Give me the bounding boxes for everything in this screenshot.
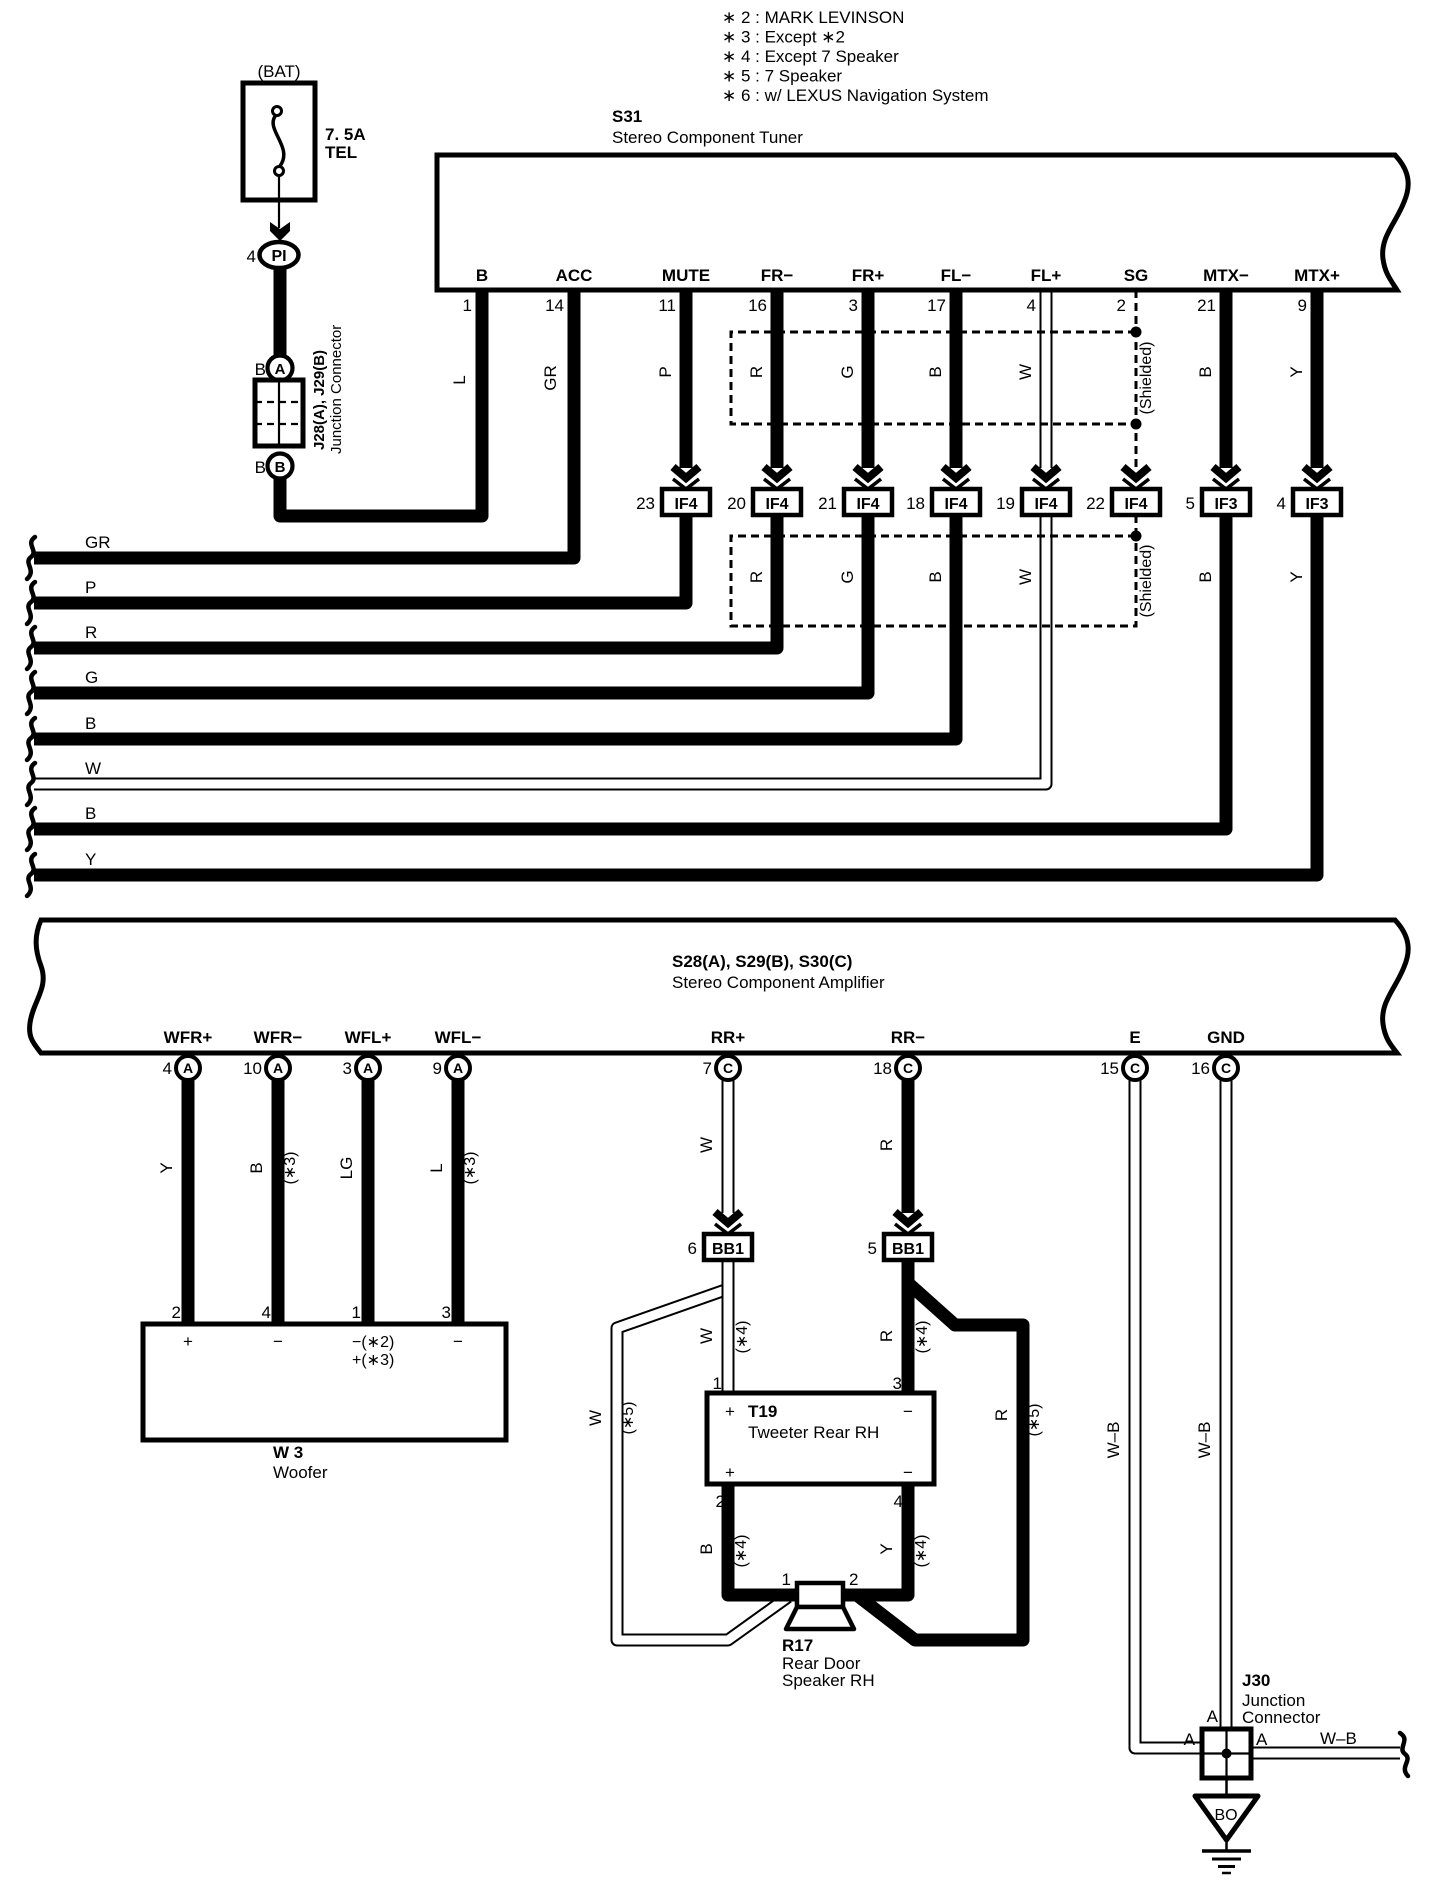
wire GR from S31 pin14 ACC to left edge: [34, 290, 574, 558]
connector 19 IF4: [996, 489, 1070, 515]
svg-text:(∗4): (∗4): [734, 1321, 751, 1354]
node A left of J30: [1184, 1730, 1196, 1749]
svg-text:FL−: FL−: [941, 266, 972, 285]
label Y on wire x=1317 upper run: [1287, 366, 1306, 377]
svg-text:W–B: W–B: [1320, 1729, 1357, 1748]
junction connector J28(A), J29(B) pin A: [255, 356, 293, 381]
label G on horizontal wire y=693: [85, 668, 98, 687]
svg-text:IF4: IF4: [674, 496, 697, 513]
svg-text:C: C: [723, 1060, 733, 1076]
svg-text:Tweeter Rear RH: Tweeter Rear RH: [748, 1423, 879, 1442]
label R on wire RR-: [877, 1139, 896, 1151]
svg-text:(∗4): (∗4): [914, 1321, 931, 1354]
S31 pin 3 FR+: [849, 266, 885, 315]
svg-text:+: +: [725, 1402, 735, 1421]
svg-text:Y: Y: [85, 850, 96, 869]
svg-text:S31: S31: [612, 107, 642, 126]
wire R from IF4-20 to left edge: [34, 515, 777, 648]
svg-text:RR+: RR+: [711, 1028, 746, 1047]
svg-text:23: 23: [636, 494, 655, 513]
svg-text:B: B: [247, 1162, 266, 1173]
svg-text:IF4: IF4: [765, 496, 788, 513]
label W (*5) on branch wire: [586, 1402, 637, 1435]
svg-text:4: 4: [1027, 296, 1036, 315]
svg-text:A: A: [453, 1060, 463, 1076]
woofer pin 1: [352, 1303, 361, 1322]
svg-text:5: 5: [868, 1239, 877, 1258]
svg-text:A: A: [275, 361, 286, 378]
legend notes: [722, 8, 989, 105]
label B on horizontal wire y=739: [85, 714, 96, 733]
label P on horizontal wire y=603: [85, 578, 96, 597]
label Y on wire x=1317 lower run: [1287, 571, 1306, 582]
svg-text:(∗4): (∗4): [913, 1535, 930, 1568]
svg-text:(Shielded): (Shielded): [1138, 545, 1155, 618]
svg-text:W: W: [697, 1137, 716, 1153]
label GR on horizontal wire y=558: [85, 533, 111, 552]
woofer pin 4: [262, 1303, 271, 1322]
arrow into connector IF4-18: [943, 467, 969, 489]
label P on wire x=686 upper run: [656, 366, 675, 377]
wire W-B (white) amp E pin15C to J30: [1135, 1080, 1204, 1748]
label Y on horizontal wire y=875: [85, 850, 96, 869]
wire SG shield (dashed) from IF4-22 to lower shield box: [1135, 515, 1138, 536]
svg-text:Speaker RH: Speaker RH: [782, 1671, 875, 1690]
svg-text:IF3: IF3: [1214, 496, 1237, 513]
svg-text:Y: Y: [877, 1543, 896, 1554]
arrow into connector IF4-19: [1033, 467, 1059, 489]
shield outline upper (dashed box): [731, 332, 1136, 424]
svg-text:Woofer: Woofer: [273, 1463, 328, 1482]
woofer pin 3: [442, 1303, 451, 1322]
amplifier pin 16C GND: [1191, 1028, 1245, 1080]
svg-text:7: 7: [703, 1059, 712, 1078]
svg-text:GND: GND: [1207, 1028, 1245, 1047]
wire P from S31 pin11 MUTE to IF4-23: [680, 290, 693, 468]
label W on wire x=1046 upper run: [1016, 364, 1035, 380]
label B on horizontal wire y=829: [85, 804, 96, 823]
svg-text:−: −: [273, 1332, 283, 1351]
junction connector J28(A), J29(B) pin B: [255, 454, 293, 479]
tuner S31 Stereo Component Tuner: [437, 107, 1408, 290]
amplifier pin 10A WFR−: [243, 1028, 302, 1080]
svg-text:RR−: RR−: [891, 1028, 926, 1047]
svg-text:21: 21: [1197, 296, 1216, 315]
svg-text:B: B: [85, 714, 96, 733]
svg-text:ACC: ACC: [556, 266, 593, 285]
svg-text:S28(A), S29(B), S30(C): S28(A), S29(B), S30(C): [672, 952, 852, 971]
svg-text:TEL: TEL: [325, 143, 357, 162]
label Y (*4) on wire tweeter pin4 to speaker: [877, 1535, 930, 1568]
label W-B on wire right of J30: [1320, 1729, 1357, 1748]
svg-text:Y: Y: [157, 1162, 176, 1173]
svg-text:G: G: [85, 668, 98, 687]
label G on wire x=868 upper run: [838, 365, 857, 378]
wire W (white, *5) branch from BB1-6 to speaker pin1: [617, 1289, 788, 1640]
svg-text:FR−: FR−: [761, 266, 794, 285]
label W on wire RR+: [697, 1137, 716, 1153]
connector 4 PI: [247, 242, 299, 268]
svg-text:IF4: IF4: [1034, 496, 1057, 513]
svg-text:W: W: [1016, 364, 1035, 380]
label W-B on wire GND: [1195, 1422, 1214, 1459]
svg-text:−(∗2): −(∗2): [352, 1334, 394, 1351]
svg-text:2: 2: [716, 1492, 725, 1511]
label B on wire x=956 lower run: [926, 571, 945, 582]
svg-text:+: +: [725, 1463, 735, 1482]
svg-text:4: 4: [247, 247, 256, 266]
speaker R17 Rear Door Speaker RH pins 1,2: [782, 1570, 859, 1589]
svg-text:GR: GR: [541, 365, 560, 391]
svg-text:14: 14: [545, 296, 564, 315]
label W on horizontal wire y=784: [85, 759, 101, 778]
amplifier pin 3A WFL+: [343, 1028, 392, 1080]
svg-text:4: 4: [262, 1303, 271, 1322]
label G on wire x=868 lower run: [838, 570, 857, 583]
svg-text:A: A: [363, 1060, 373, 1076]
wire Y amp WFR+ pin4A to woofer pin2: [182, 1080, 195, 1324]
svg-text:A: A: [1256, 1730, 1268, 1749]
arrow into connector IF4-22: [1123, 467, 1149, 489]
svg-text:1: 1: [463, 296, 472, 315]
amplifier pin 15C E: [1100, 1028, 1147, 1080]
svg-text:G: G: [838, 570, 857, 583]
svg-text:1: 1: [782, 1570, 791, 1589]
speaker R17 symbol: [782, 1583, 875, 1690]
svg-text:SG: SG: [1124, 266, 1149, 285]
svg-text:B: B: [1196, 366, 1215, 377]
svg-text:11: 11: [658, 296, 676, 315]
junction connector J30 body: [1202, 1729, 1251, 1778]
wire W (white, *4) from BB1-6 to tweeter pin1: [722, 1259, 735, 1393]
svg-text:16: 16: [748, 296, 767, 315]
label W-B on wire E: [1104, 1422, 1123, 1459]
label B on wire x=1226 lower run: [1196, 571, 1215, 582]
svg-text:BB1: BB1: [892, 1241, 924, 1258]
wire R (*4) from BB1-5 to tweeter pin3: [902, 1080, 915, 1393]
svg-text:IF3: IF3: [1305, 496, 1328, 513]
tweeter pin 4: [894, 1492, 903, 1511]
svg-text:C: C: [903, 1060, 913, 1076]
label B on wire x=956 upper run: [926, 366, 945, 377]
svg-text:(BAT): (BAT): [257, 62, 300, 81]
ground lead from J30: [1225, 1778, 1228, 1796]
amplifier pin 9A WFL−: [433, 1028, 482, 1080]
arrow into connector IF4-23: [673, 467, 699, 489]
connector 21 IF4: [818, 489, 892, 515]
wire L amp WFL- pin9A to woofer pin3: [452, 1080, 465, 1324]
svg-text:B: B: [926, 366, 945, 377]
shield junction dot upper bottom: [1131, 419, 1142, 430]
svg-text:P: P: [85, 578, 96, 597]
svg-text:3: 3: [343, 1059, 352, 1078]
S31 pin 16 FR−: [748, 266, 793, 315]
svg-text:16: 16: [1191, 1059, 1210, 1078]
label R on wire x=777 upper run: [747, 366, 766, 378]
svg-text:IF4: IF4: [856, 496, 879, 513]
svg-text:B: B: [697, 1543, 716, 1554]
svg-text:W: W: [697, 1328, 716, 1344]
svg-text:(∗3): (∗3): [282, 1152, 299, 1185]
svg-text:MUTE: MUTE: [662, 266, 710, 285]
label L on wire to S31 pin1: [450, 375, 469, 384]
connector 5 IF3: [1186, 489, 1250, 515]
svg-text:1: 1: [713, 1374, 722, 1393]
svg-text:BB1: BB1: [712, 1241, 744, 1258]
S31 pin 21 MTX−: [1197, 266, 1249, 315]
connector 4 IF3: [1277, 489, 1341, 515]
svg-text:Stereo Component Amplifier: Stereo Component Amplifier: [672, 973, 885, 992]
svg-text:∗ 2 : MARK LEVINSON: ∗ 2 : MARK LEVINSON: [722, 8, 904, 27]
svg-text:15: 15: [1100, 1059, 1119, 1078]
wire Y from IF3-4 to left edge: [34, 515, 1317, 875]
svg-text:E: E: [1129, 1028, 1140, 1047]
svg-text:WFR−: WFR−: [254, 1028, 303, 1047]
junction connector J30 labels: [1242, 1671, 1321, 1727]
svg-text:B: B: [926, 571, 945, 582]
svg-text:G: G: [838, 365, 857, 378]
svg-text:W: W: [1016, 569, 1035, 585]
svg-text:W–B: W–B: [1195, 1422, 1214, 1459]
arrow into connector IF3-4: [1304, 467, 1330, 489]
svg-text:A: A: [273, 1060, 283, 1076]
svg-text:(∗3): (∗3): [462, 1152, 479, 1185]
tweeter pin 1: [713, 1374, 722, 1393]
svg-text:9: 9: [1298, 296, 1307, 315]
amplifier pin 7C RR+: [703, 1028, 746, 1080]
svg-text:Y: Y: [1287, 571, 1306, 582]
svg-text:T19: T19: [748, 1402, 777, 1421]
wire Y (*4) tweeter pin4 to speaker pin2: [843, 1484, 908, 1595]
svg-text:WFR+: WFR+: [164, 1028, 213, 1047]
svg-text:(Shielded): (Shielded): [1138, 342, 1155, 415]
arrow into connector IF4-21: [855, 467, 881, 489]
svg-text:W: W: [85, 759, 101, 778]
wire B from IF3-5 to left edge: [34, 515, 1226, 829]
wire W (white) from IF4-19 to left edge: [34, 515, 1046, 784]
svg-text:Stereo Component Tuner: Stereo Component Tuner: [612, 128, 803, 147]
arrow into connector BB1-6: [715, 1212, 741, 1234]
svg-text:4: 4: [1277, 494, 1286, 513]
label L (*3) on wire WFL-: [427, 1152, 479, 1185]
arrow into connector IF3-5: [1213, 467, 1239, 489]
wire R (*5) branch from BB1-5 to speaker pin2: [858, 1283, 1023, 1640]
svg-text:BO: BO: [1214, 1807, 1237, 1824]
svg-text:WFL−: WFL−: [435, 1028, 482, 1047]
svg-text:−: −: [903, 1402, 913, 1421]
svg-text:19: 19: [996, 494, 1015, 513]
wire B from S31 pin17 FL- to IF4-18: [950, 290, 963, 468]
svg-text:10: 10: [243, 1059, 262, 1078]
S31 pin 14 ACC: [545, 266, 592, 315]
shield junction dot lower: [1131, 531, 1142, 542]
svg-text:2: 2: [849, 1570, 858, 1589]
amplifier pin 18C RR−: [873, 1028, 925, 1080]
label GR on wire to S31 pin14: [541, 365, 560, 391]
label W on wire x=1046 lower run: [1016, 569, 1035, 585]
svg-text:B: B: [476, 266, 488, 285]
label (Shielded) upper: [1138, 342, 1155, 415]
svg-text:C: C: [1221, 1060, 1231, 1076]
svg-text:3: 3: [849, 296, 858, 315]
wire G from S31 pin3 FR+ to IF4-21: [862, 290, 875, 468]
wire W (white) amp RR+ pin7C to BB1-6: [722, 1080, 735, 1213]
svg-text:P: P: [656, 366, 675, 377]
ground point BO: [1195, 1796, 1258, 1840]
label Y on wire WFR+: [157, 1162, 176, 1173]
svg-text:2: 2: [1117, 296, 1126, 315]
svg-text:R: R: [747, 571, 766, 583]
connector 6 BB1: [688, 1234, 752, 1260]
wire P from IF4-23 to left edge: [34, 515, 686, 603]
svg-text:J30: J30: [1242, 1671, 1270, 1690]
svg-text:21: 21: [818, 494, 837, 513]
tweeter T19 Tweeter Rear RH: [707, 1393, 934, 1484]
wire L from junction connector B to S31 pin1 B: [280, 290, 482, 516]
svg-text:Connector: Connector: [1242, 1708, 1321, 1727]
tweeter pin 2: [716, 1492, 725, 1511]
label W (*4) on wire to tweeter pin1: [697, 1321, 751, 1354]
svg-text:5: 5: [1186, 494, 1195, 513]
svg-text:FL+: FL+: [1031, 266, 1062, 285]
svg-text:L: L: [427, 1163, 446, 1172]
svg-text:B: B: [85, 804, 96, 823]
svg-text:∗ 6 : w/ LEXUS Navigation Syst: ∗ 6 : w/ LEXUS Navigation System: [722, 86, 989, 105]
connector 5 BB1: [868, 1234, 932, 1260]
wire B from IF4-18 to left edge: [34, 515, 956, 739]
svg-text:6: 6: [688, 1239, 697, 1258]
svg-text:A: A: [1184, 1730, 1196, 1749]
wire R from S31 pin16 FR- to IF4-20: [771, 290, 784, 468]
svg-text:(∗5): (∗5): [1026, 1404, 1043, 1437]
shield junction dot upper top: [1131, 327, 1142, 338]
S31 pin 4 FL+: [1027, 266, 1062, 315]
S31 pin 1 B: [463, 266, 489, 315]
label LG on wire WFL+: [337, 1157, 356, 1180]
svg-text:W–B: W–B: [1104, 1422, 1123, 1459]
svg-text:1: 1: [352, 1303, 361, 1322]
svg-text:7. 5A: 7. 5A: [325, 125, 366, 144]
svg-text:B: B: [1196, 571, 1215, 582]
label R on horizontal wire y=648: [85, 623, 97, 642]
wire W (white) from S31 pin4 FL+ to IF4-19: [1040, 290, 1053, 468]
svg-text:(∗4): (∗4): [733, 1535, 750, 1568]
arrow into connector BB1-5: [895, 1212, 921, 1234]
svg-text:R: R: [85, 623, 97, 642]
svg-text:−: −: [903, 1463, 913, 1482]
S31 pin 11 MUTE: [658, 266, 710, 315]
amplifier S28(A), S29(B), S30(C) Stereo Component Amplifier: [30, 920, 1409, 1053]
svg-text:4: 4: [163, 1059, 172, 1078]
junction connector J28(A), J29(B) body: [255, 325, 345, 454]
svg-text:MTX+: MTX+: [1294, 266, 1340, 285]
svg-text:J28(A), J29(B): J28(A), J29(B): [311, 350, 328, 450]
svg-text:W: W: [586, 1410, 605, 1426]
svg-text:(∗5): (∗5): [620, 1402, 637, 1435]
svg-text:2: 2: [172, 1303, 181, 1322]
wire G from IF4-21 to left edge: [34, 515, 868, 693]
svg-text:A: A: [1207, 1707, 1219, 1726]
label R (*4) on wire to tweeter pin3: [877, 1321, 931, 1354]
svg-text:R: R: [747, 366, 766, 378]
label B (*3) on wire WFR-: [247, 1152, 299, 1185]
svg-text:W 3: W 3: [273, 1443, 303, 1462]
svg-text:GR: GR: [85, 533, 111, 552]
woofer pin 2: [172, 1303, 181, 1322]
svg-text:+(∗3): +(∗3): [352, 1352, 394, 1369]
label R (*5) on branch wire: [992, 1404, 1043, 1437]
shield outline lower (dashed box): [731, 536, 1136, 626]
S31 pin 2 SG: [1117, 266, 1149, 315]
arrow into connector PI: [270, 222, 290, 241]
wire B amp WFR- pin10A to woofer pin4: [272, 1080, 285, 1324]
svg-text:9: 9: [433, 1059, 442, 1078]
wire W-B (white) amp GND pin16C to J30: [1220, 1080, 1233, 1731]
label B (*4) on wire tweeter pin2 to speaker: [697, 1535, 750, 1568]
svg-text:WFL+: WFL+: [345, 1028, 392, 1047]
connector 20 IF4: [727, 489, 801, 515]
fuse 7.5A TEL: [243, 62, 366, 228]
svg-text:+: +: [183, 1332, 193, 1351]
svg-text:∗ 4 : Except 7 Speaker: ∗ 4 : Except 7 Speaker: [722, 47, 899, 66]
node A above J30: [1207, 1707, 1219, 1726]
connector 18 IF4: [906, 489, 980, 515]
svg-text:20: 20: [727, 494, 746, 513]
ground symbol: [1202, 1840, 1251, 1873]
label (Shielded) lower: [1138, 545, 1155, 618]
node A right of J30: [1256, 1730, 1268, 1749]
svg-text:LG: LG: [337, 1157, 356, 1180]
svg-text:∗ 5 : 7 Speaker: ∗ 5 : 7 Speaker: [722, 67, 842, 86]
svg-text:−: −: [453, 1332, 463, 1351]
wire B (*4) tweeter pin2 to speaker pin1: [728, 1484, 800, 1595]
svg-text:FR+: FR+: [852, 266, 885, 285]
wire LG amp WFL+ pin3A to woofer pin1: [362, 1080, 375, 1324]
connector 23 IF4: [636, 489, 710, 515]
svg-text:IF4: IF4: [1124, 496, 1147, 513]
svg-text:C: C: [1130, 1060, 1140, 1076]
svg-text:∗ 3 : Except ∗2: ∗ 3 : Except ∗2: [722, 28, 845, 47]
svg-text:A: A: [183, 1060, 193, 1076]
wire SG shield (dashed) from S31 pin2 to IF4-22: [1135, 290, 1138, 468]
svg-text:PI: PI: [271, 248, 286, 265]
svg-text:3: 3: [893, 1374, 902, 1393]
svg-text:Y: Y: [1287, 366, 1306, 377]
woofer W 3: [143, 1324, 506, 1482]
svg-text:22: 22: [1086, 494, 1105, 513]
wire B from S31 pin21 MTX- to IF3-5: [1220, 290, 1233, 468]
svg-text:Junction Connector: Junction Connector: [328, 325, 345, 454]
svg-text:18: 18: [906, 494, 925, 513]
svg-text:L: L: [450, 375, 469, 384]
label B on wire x=1226 upper run: [1196, 366, 1215, 377]
svg-text:MTX−: MTX−: [1203, 266, 1249, 285]
svg-text:R: R: [877, 1330, 896, 1342]
svg-text:B: B: [255, 360, 266, 379]
svg-text:B: B: [275, 459, 286, 476]
label R on wire x=777 lower run: [747, 571, 766, 583]
svg-text:17: 17: [927, 296, 946, 315]
svg-text:R: R: [877, 1139, 896, 1151]
wire Y from S31 pin9 MTX+ to IF3-4: [1311, 290, 1324, 468]
svg-text:18: 18: [873, 1059, 892, 1078]
svg-text:R: R: [992, 1409, 1011, 1421]
wire W-B (white) from J30 to right continuation: [1251, 1747, 1400, 1760]
wire L from fuse to junction connector A: [274, 267, 287, 357]
tweeter pin 3: [893, 1374, 902, 1393]
S31 pin 9 MTX+: [1294, 266, 1340, 315]
svg-text:B: B: [255, 458, 266, 477]
